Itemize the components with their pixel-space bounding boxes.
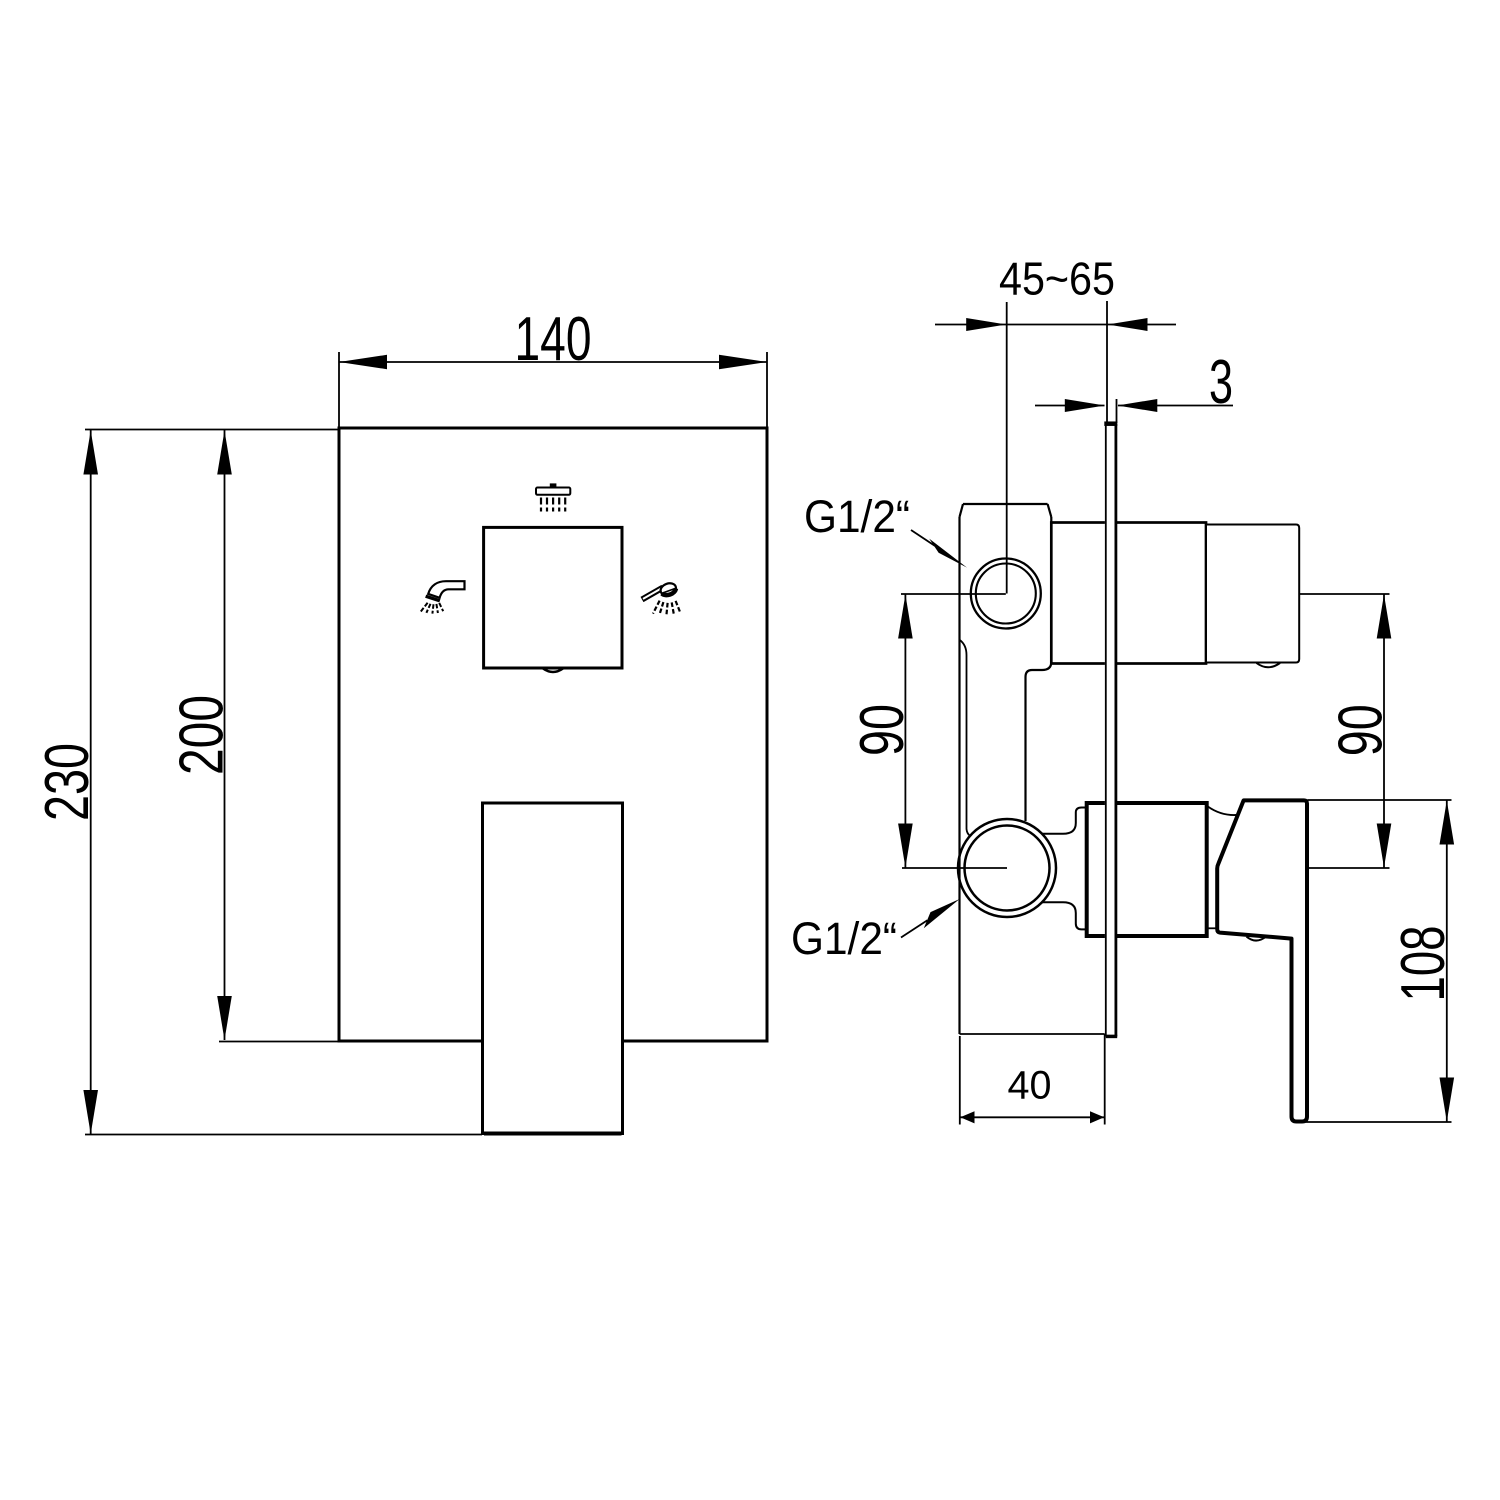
svg-text:200: 200	[168, 695, 237, 775]
svg-text:G1/2“: G1/2“	[804, 491, 910, 542]
svg-text:45~65: 45~65	[999, 253, 1115, 305]
svg-text:90: 90	[1327, 704, 1396, 756]
svg-text:3: 3	[1209, 348, 1233, 417]
svg-text:40: 40	[1008, 1064, 1052, 1108]
svg-text:90: 90	[848, 704, 917, 756]
svg-text:108: 108	[1389, 926, 1458, 1002]
svg-text:230: 230	[33, 743, 102, 821]
svg-text:140: 140	[515, 305, 592, 374]
svg-text:G1/2“: G1/2“	[791, 913, 897, 964]
